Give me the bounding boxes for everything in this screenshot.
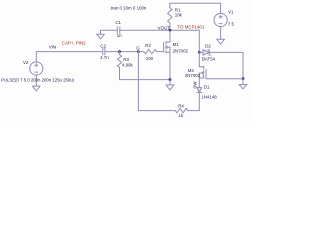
svg-text:R2: R2 (145, 43, 151, 48)
wire M1 source down (169, 52, 171, 79)
wire R4 to D1 (188, 110, 200, 112)
wire top rail R1 to V1 (170, 2, 221, 4)
svg-text:100: 100 (146, 56, 154, 61)
resistor R3 (117, 52, 133, 80)
svg-text:V1: V1 (228, 9, 234, 14)
svg-text:.tran 0 10m 0 100n: .tran 0 10m 0 100n (110, 5, 147, 10)
wire D1 cathode to bottom rail (198, 92, 200, 110)
junction R3 top (118, 50, 121, 53)
svg-text:C1: C1 (115, 20, 121, 25)
svg-text:CAP+, PIN2: CAP+, PIN2 (62, 40, 86, 45)
ground under V1 (220, 27, 222, 40)
svg-text:D1: D1 (204, 85, 210, 90)
svg-text:4.99k: 4.99k (122, 62, 134, 67)
wire M2 source down to D1 (198, 78, 200, 88)
wire C2 to node G (105, 51, 138, 53)
diode D1 (197, 85, 218, 100)
diode D2 (199, 44, 215, 62)
wire D2 cathode to right riser (209, 52, 243, 78)
transistor M2 2N7002 mirrored (185, 52, 206, 78)
resistor R1 (168, 3, 183, 30)
svg-text:PULSE(0 7.5 0 200n 200n 125u 2: PULSE(0 7.5 0 200n 200n 125u 250u) (1, 78, 75, 83)
wire VIN riser from V2 (35, 52, 37, 62)
svg-text:7.5: 7.5 (228, 22, 235, 27)
svg-text:VOUT: VOUT (157, 25, 170, 30)
junction VOUT (169, 29, 172, 32)
svg-text:1N4148: 1N4148 (201, 94, 217, 99)
wire VIN rail (36, 51, 102, 53)
wire M1 drain to VOUT (169, 30, 171, 42)
svg-text:1n: 1n (117, 33, 122, 38)
junction node G (137, 50, 140, 53)
ground left of C1 (97, 30, 105, 39)
wire VOUT down to D2 (198, 30, 200, 52)
svg-text:C2: C2 (100, 43, 106, 48)
svg-text:M1: M1 (173, 42, 180, 47)
junction D2 anode (198, 51, 201, 54)
wire right rail to M2 gate (206, 78, 243, 80)
resistor R2 (138, 43, 163, 61)
svg-text:BAT54: BAT54 (202, 56, 216, 61)
svg-text:R4: R4 (178, 104, 184, 109)
voltage source V2 (23, 60, 43, 86)
junction M1 source (169, 78, 172, 81)
capacitor C1 (115, 20, 122, 38)
voltage source V1 (214, 3, 234, 27)
svg-text:V2: V2 (23, 60, 29, 65)
wire ground to C1 (101, 29, 118, 31)
ground right (242, 79, 244, 85)
wire R3 bottom to M1 source ground (120, 79, 171, 81)
junction right ground (242, 77, 245, 80)
svg-text:VIN: VIN (49, 44, 57, 49)
svg-text:TO MCP1401: TO MCP1401 (178, 25, 205, 30)
transistor M1 2N7002 (164, 42, 189, 54)
ground under M1 source (169, 80, 171, 85)
svg-text:2N7002: 2N7002 (185, 73, 201, 78)
svg-text:R3: R3 (123, 57, 129, 62)
wire node G down to bottom rail (137, 52, 139, 111)
svg-text:10k: 10k (175, 12, 183, 17)
svg-text:4.7n: 4.7n (100, 55, 109, 60)
wire VOUT rail (120, 29, 200, 31)
svg-text:G: G (136, 45, 140, 50)
resistor R4 (175, 104, 188, 118)
wire bottom rail left (138, 110, 175, 112)
svg-text:D2: D2 (205, 44, 211, 49)
capacitor C2 (100, 43, 109, 60)
ground under V2 (32, 86, 40, 91)
svg-text:1k: 1k (178, 113, 183, 118)
svg-text:2N7002: 2N7002 (173, 48, 189, 53)
